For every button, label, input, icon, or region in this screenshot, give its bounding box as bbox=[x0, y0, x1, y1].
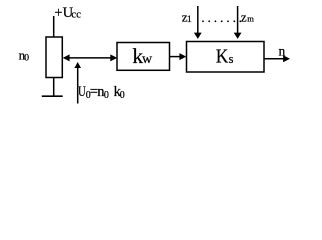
wire wiper to kW block (double-headed arrow) bbox=[66, 57, 114, 59]
label n0 (potentiometer name) bbox=[19, 47, 30, 63]
svg-text:s: s bbox=[229, 52, 234, 66]
wiper arrowhead into potentiometer bbox=[63, 54, 70, 61]
svg-text:m: m bbox=[247, 14, 254, 24]
svg-text:0: 0 bbox=[120, 90, 125, 101]
U0 voltage arrow stem bbox=[77, 67, 79, 104]
svg-text:0: 0 bbox=[24, 54, 29, 64]
label kW bbox=[132, 44, 153, 68]
svg-text:cc: cc bbox=[71, 8, 81, 20]
U0 arrowhead bbox=[74, 62, 81, 68]
arrowhead output n bbox=[283, 55, 290, 62]
wire kW to Ks bbox=[170, 56, 184, 58]
label U0 = n0 k0 bbox=[78, 84, 125, 101]
label Ks bbox=[216, 45, 234, 67]
arrowhead into Ks bbox=[179, 53, 186, 60]
label +Ucc supply bbox=[54, 5, 81, 21]
dots between z1 and zm bbox=[202, 20, 241, 22]
svg-text:w: w bbox=[142, 52, 153, 67]
arrowhead into kW bbox=[110, 54, 117, 61]
arrowhead zm into Ks bbox=[234, 33, 242, 39]
wire potentiometer bottom lead bbox=[53, 78, 55, 97]
arrowhead z1 into Ks bbox=[194, 33, 202, 39]
wire from +Ucc down to potentiometer bbox=[53, 16, 55, 37]
ground bbox=[42, 95, 63, 97]
block Ks bbox=[187, 42, 265, 73]
svg-text:1: 1 bbox=[187, 14, 192, 25]
wire z1 input bbox=[197, 6, 199, 34]
block kW bbox=[117, 43, 170, 71]
svg-text:0: 0 bbox=[104, 90, 109, 101]
label z1 bbox=[182, 9, 192, 25]
svg-text:K: K bbox=[216, 45, 229, 67]
label zm bbox=[241, 9, 254, 24]
svg-text:z: z bbox=[241, 9, 247, 24]
potentiometer R (n0) body bbox=[46, 37, 62, 78]
svg-text:n: n bbox=[279, 43, 286, 58]
wire Ks output bbox=[264, 58, 287, 60]
wire zm input bbox=[237, 6, 239, 34]
